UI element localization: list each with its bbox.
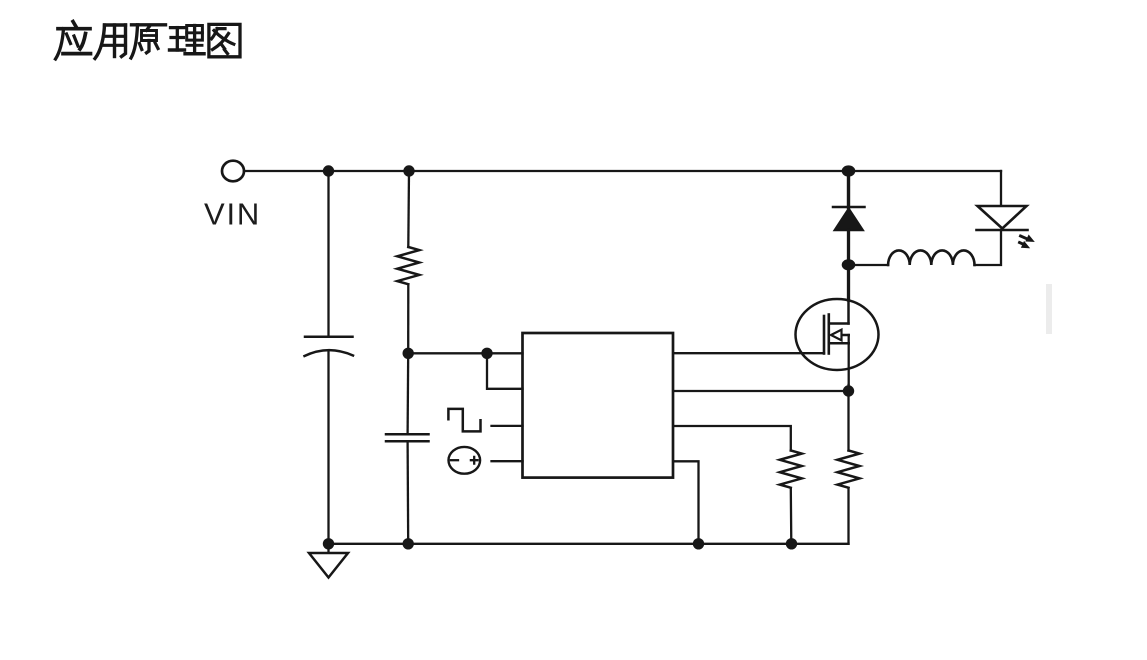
wire LED to inductor corner (975, 230, 1002, 265)
wire IC pin7 to R2 (673, 426, 791, 451)
wire branch to IC pin2 (487, 353, 523, 389)
node source-feedback (843, 385, 854, 396)
node C1-rail (323, 538, 334, 549)
wire node to IC pin1 (408, 352, 522, 354)
wire IC pin6 to source node (673, 390, 849, 392)
terminal VIN (222, 161, 244, 182)
wire pulse to IC pin3 (492, 425, 523, 427)
wire node to C2 (406, 353, 409, 434)
mosfet Q1 (796, 299, 879, 385)
wire top rail (244, 170, 1001, 172)
node R2-rail (786, 538, 797, 549)
resistor R3 (838, 451, 860, 488)
用 (95, 25, 105, 59)
resistor R1 (397, 247, 419, 284)
node pin8-rail (693, 538, 704, 549)
wire bottom rail (329, 543, 849, 545)
wire inductor to diode node (849, 264, 889, 266)
title 应用原理图 (56, 22, 241, 60)
capacitor C1 (305, 337, 354, 356)
diode D1 (833, 207, 865, 231)
wire source node to R3 (847, 391, 849, 451)
wire C2 to bottom rail (406, 441, 409, 544)
wire rail to R1 (407, 171, 410, 247)
inductor L1 (888, 250, 974, 265)
原 (132, 23, 166, 26)
node C2-rail (403, 538, 414, 549)
wire gate (673, 352, 824, 354)
wire IC pin8 to rail (673, 461, 699, 544)
IC U1 (523, 333, 674, 478)
wire rail to C1 (327, 171, 329, 337)
wire right drop to LED (1000, 171, 1002, 206)
应 (73, 22, 77, 28)
source V1 (449, 447, 481, 474)
wire V1 to IC pin4 (492, 460, 523, 462)
理 (171, 26, 185, 29)
wire rail to diode (847, 171, 850, 208)
wire R2 to bottom rail (790, 489, 793, 544)
wire C1 to bottom rail (327, 351, 329, 544)
图 (209, 24, 240, 56)
resistor R2 (780, 451, 802, 488)
pulse input symbol (448, 409, 480, 432)
node diode-inductor (842, 259, 856, 270)
ground (309, 544, 348, 578)
LED D2 (977, 206, 1034, 248)
node VCC-divider (403, 348, 414, 359)
wire R3 to bottom rail (847, 489, 849, 544)
capacitor C2 (386, 434, 429, 441)
node rail-diode (842, 165, 856, 176)
wire diode to mosfet drain (847, 231, 850, 301)
svg-text:VIN: VIN (204, 197, 261, 232)
wire mosfet source to node (847, 385, 849, 391)
node top rail C1 (323, 165, 334, 176)
node top rail R1 (403, 165, 414, 176)
wire R1 to node (407, 285, 409, 353)
node pin2-branch (481, 348, 492, 359)
